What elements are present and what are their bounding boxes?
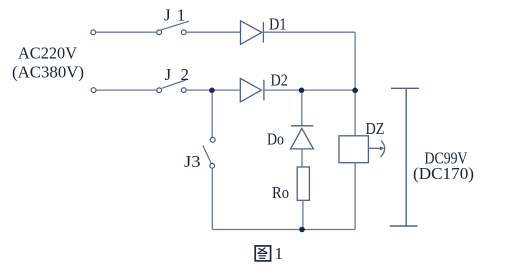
wire: [186, 31, 240, 33]
junction node bottom: [299, 227, 305, 233]
switch J2 contact left: [157, 88, 162, 93]
svg-text:Ro: Ro: [272, 183, 289, 202]
DZ actuator arrow: [369, 141, 385, 158]
diode D1: [241, 21, 264, 45]
figure caption glyph 图: [255, 246, 270, 261]
wire: [264, 89, 355, 91]
terminal top-left: [91, 30, 96, 35]
component DZ box: [339, 136, 368, 163]
switch J1 blade: [161, 21, 189, 30]
wire DZ lower: [354, 163, 356, 230]
switch J1 contact right: [181, 30, 186, 35]
svg-text:D2: D2: [271, 71, 288, 90]
switch J3 contact top: [210, 137, 215, 142]
svg-text:1: 1: [275, 244, 284, 263]
resistor Ro: [297, 167, 309, 200]
output bracket top bar: [391, 87, 419, 89]
wire Do upper: [301, 92, 303, 125]
output bracket bottom bar: [390, 225, 418, 227]
svg-text:1: 1: [177, 6, 186, 25]
terminal mid-left: [91, 88, 96, 93]
wire: [186, 89, 240, 91]
svg-text:(AC380V): (AC380V): [12, 62, 84, 81]
switch J1 contact left: [157, 30, 162, 35]
svg-text:DZ: DZ: [366, 119, 385, 138]
switch J2 blade: [162, 80, 186, 89]
svg-text:J3: J3: [184, 152, 201, 171]
wire right vertical: [354, 32, 356, 136]
wire: [96, 89, 156, 91]
wire Ro lower: [302, 200, 304, 229]
junction node right rail: [352, 88, 358, 94]
wire bottom rail: [212, 229, 355, 231]
svg-text:AC220V: AC220V: [18, 43, 78, 62]
svg-text:Do: Do: [267, 130, 284, 149]
wire: [301, 149, 303, 167]
junction node Do tap: [299, 88, 305, 94]
junction node J3 tap: [209, 88, 215, 94]
wire: [263, 31, 355, 33]
svg-text:D1: D1: [269, 15, 287, 34]
wire J3 lower: [211, 168, 213, 229]
switch J3 contact bottom: [210, 163, 215, 168]
diode Do (zener, pointing up): [291, 126, 314, 149]
switch J3 blade: [203, 145, 211, 163]
wire: [96, 31, 157, 33]
switch J2 contact right: [181, 88, 186, 93]
diode D2: [240, 78, 264, 102]
svg-text:(DC170): (DC170): [413, 164, 474, 183]
svg-text:J: J: [164, 6, 171, 25]
output bracket vertical: [405, 88, 407, 226]
wire J3 upper: [211, 92, 213, 137]
